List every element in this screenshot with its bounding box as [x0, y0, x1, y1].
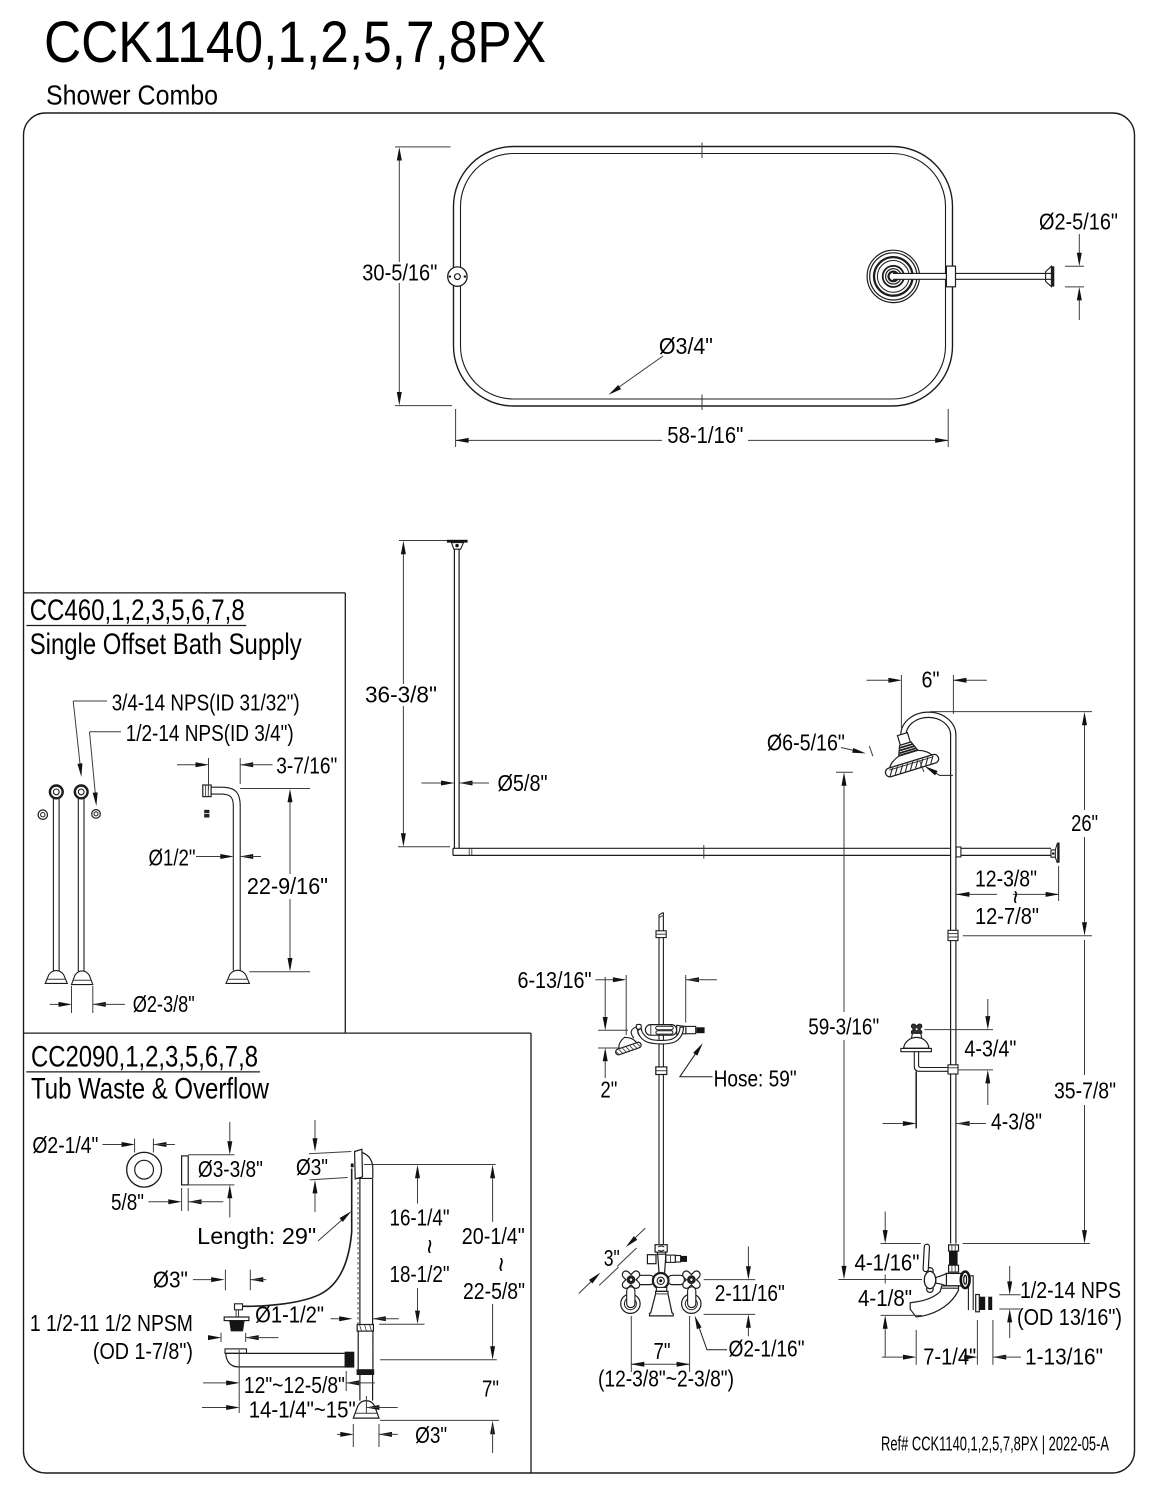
svg-text:Ø5/8": Ø5/8": [498, 770, 548, 796]
svg-text:Single Offset Bath Supply: Single Offset Bath Supply: [30, 628, 302, 661]
faucet wall plate and nipple: [976, 1295, 980, 1312]
center cradle right cone and hose nozzle: [677, 1025, 686, 1034]
svg-text:Length: 29": Length: 29": [197, 1223, 316, 1249]
svg-text:Hose: 59": Hose: 59": [714, 1065, 797, 1091]
svg-text:Ø3": Ø3": [153, 1267, 188, 1293]
CC2090 box border: [24, 1032, 532, 1034]
right coupling ring and stem: [682, 1294, 701, 1313]
dimension 12 to 12-5/8 inch: [238, 1350, 240, 1413]
svg-text:1/2-14 NPS(ID 3/4"): 1/2-14 NPS(ID 3/4"): [126, 720, 294, 746]
shower head top view concentric circles: [867, 250, 919, 302]
svg-text:Ø3": Ø3": [296, 1154, 328, 1180]
svg-text:20-1/4": 20-1/4": [462, 1223, 525, 1249]
svg-text:(12-3/8"~2-3/8"): (12-3/8"~2-3/8"): [598, 1365, 734, 1391]
tee lower nut: [357, 1369, 375, 1375]
center faucet left cross handle: [616, 1264, 647, 1295]
svg-text:35-7/8": 35-7/8": [1054, 1078, 1116, 1104]
svg-text:1/2-14 NPS: 1/2-14 NPS: [1020, 1277, 1121, 1303]
svg-text:Ø1-1/2": Ø1-1/2": [255, 1302, 324, 1328]
dimension diameter 2-3/8 inch (base): [71, 986, 73, 1013]
svg-text:(OD 1-7/8"): (OD 1-7/8"): [93, 1338, 193, 1364]
svg-text:36-3/8": 36-3/8": [365, 682, 437, 708]
svg-text:Tub Waste & Overflow: Tub Waste & Overflow: [31, 1073, 269, 1106]
center cradle capsule body: [645, 1025, 676, 1036]
offset pipe end nut: [203, 785, 211, 797]
svg-text:Shower Combo: Shower Combo: [46, 80, 218, 111]
dimension 3-7/16 inch (offset): [208, 758, 210, 790]
svg-text:4-3/4": 4-3/4": [964, 1036, 1016, 1062]
faucet tub spout: [910, 1286, 958, 1317]
center faucet escutcheon circles: [653, 1273, 669, 1289]
drain strainer with hose connection: [235, 1304, 243, 1310]
curtain rail top view - inner tube wall: [461, 154, 946, 400]
curtain rail top view - outer tube wall: [454, 147, 953, 407]
right cradle arm to riser: [914, 1052, 948, 1072]
dimension 2 inch (cradle drop): [598, 1029, 628, 1031]
overflow lower tube: [357, 1331, 359, 1351]
svg-text:5/8": 5/8": [111, 1189, 144, 1215]
svg-text:12"~12-5/8": 12"~12-5/8": [244, 1372, 345, 1398]
waste tee joint on overflow tube: [357, 1351, 359, 1369]
svg-text:2-11/16": 2-11/16": [715, 1280, 785, 1306]
gooseneck arc: [901, 712, 956, 735]
center faucet diverter column: [658, 1254, 666, 1274]
svg-text:18-1/2": 18-1/2": [390, 1261, 450, 1287]
center riser pipe with cut top: [658, 915, 660, 1244]
offset pipe clip detail: [204, 810, 209, 818]
dimension 2-11/16 inch: [704, 1279, 756, 1281]
svg-text:58-1/16": 58-1/16": [667, 422, 743, 448]
svg-text:1 1/2-11 1/2 NPSM: 1 1/2-11 1/2 NPSM: [30, 1310, 193, 1336]
svg-text:Ref# CCK1140,1,2,5,7,8PX | 202: Ref# CCK1140,1,2,5,7,8PX | 2022-05-A: [881, 1434, 1109, 1456]
svg-text:16-1/4": 16-1/4": [390, 1205, 450, 1231]
label 1/2-14 NPS (OD 13/16) with dimension: [1009, 1266, 1011, 1291]
svg-text:3-7/16": 3-7/16": [276, 752, 337, 778]
svg-text:CC460,1,2,3,5,6,7,8: CC460,1,2,3,5,6,7,8: [30, 594, 245, 627]
svg-text:26": 26": [1071, 810, 1098, 836]
svg-text:1-13/16": 1-13/16": [1025, 1344, 1103, 1370]
ceiling flange plate: [447, 540, 468, 543]
svg-text:12-3/8": 12-3/8": [975, 866, 1037, 892]
wall faucet L-arm to wall: [963, 1276, 974, 1310]
center faucet tub spout cone: [656, 1287, 666, 1291]
center cradle hook knob: [636, 1024, 641, 1029]
dimension 36-3/8 inch (ceiling rod length): [399, 540, 447, 542]
svg-text:6-13/16": 6-13/16": [518, 967, 592, 993]
rail joint tick bottom: [701, 395, 703, 411]
dimension 7-1/4 inch: [882, 1356, 912, 1358]
center faucet right cross handle: [676, 1264, 707, 1295]
dimension 7 inch (handle spacing): [630, 1316, 632, 1372]
center riser collar band: [656, 931, 666, 938]
rail wall flange side view: [1051, 850, 1055, 857]
flexible hose from drain to overflow elbow: [238, 1169, 352, 1307]
center faucet top fitting nut: [655, 1245, 667, 1252]
rail stub to wall flange: [961, 847, 1051, 849]
svg-text:14-1/4"~15": 14-1/4"~15": [249, 1396, 356, 1422]
center faucet diverter lever (left block): [647, 1255, 656, 1264]
svg-text:4-3/8": 4-3/8": [991, 1109, 1042, 1135]
drain slip nut and trap elbow with horizontal pipe: [225, 1349, 247, 1353]
rail ceiling-support fitting circle left: [448, 267, 467, 286]
svg-text:Ø3-3/8": Ø3-3/8": [198, 1156, 263, 1182]
overflow gasket ring front view: [127, 1152, 162, 1187]
svg-text:Ø3/4": Ø3/4": [659, 333, 713, 359]
dimension 59-3/16 inch (head to faucet): [836, 771, 853, 773]
dimension 4-3/8 inch (hose to riser): [883, 1123, 912, 1125]
dimension 4-1/16 inch: [881, 1243, 921, 1245]
svg-text:59-3/16": 59-3/16": [808, 1013, 879, 1039]
faucet cone between pivot and body: [936, 1274, 947, 1286]
dimension 14-1/4 to 15 inch: [202, 1407, 235, 1409]
handshower head in center cradle: [631, 1027, 637, 1039]
dimension 6 inch (head offset): [900, 675, 902, 728]
svg-text:Ø6-5/16": Ø6-5/16": [767, 729, 845, 755]
ceiling support rod: [453, 549, 455, 848]
hidden inner tube dashed line: [357, 1182, 359, 1324]
dimension 35-7/8 inch: [1084, 940, 1086, 1075]
arm coupling on riser: [948, 1065, 958, 1074]
svg-text:7": 7": [482, 1375, 499, 1401]
rail mid joint tick: [703, 845, 705, 859]
svg-text:~: ~: [415, 1239, 445, 1254]
escutcheon ring right: [92, 810, 101, 819]
offset pipe base flare: [226, 970, 249, 983]
dimension diameter 3 inch (floor flange): [352, 1424, 354, 1447]
floor flange flare: [353, 1401, 379, 1419]
ceiling flange neck: [451, 543, 463, 550]
svg-text:2": 2": [600, 1077, 617, 1103]
overflow elbow with face plate: [355, 1149, 363, 1179]
rail end joint ticks: [468, 848, 470, 855]
label Hose: 59 inch with leader to nozzle: [680, 1046, 713, 1077]
svg-text:~: ~: [487, 1257, 517, 1272]
CC460 box border: [24, 592, 346, 594]
svg-text:4-1/8": 4-1/8": [858, 1285, 912, 1311]
svg-text:Ø1/2": Ø1/2": [149, 844, 196, 870]
rail joint tick top: [701, 143, 703, 159]
center cradle U hanger bracket: [637, 1027, 683, 1044]
hatched nut at pipe-tee connection: [345, 1352, 355, 1368]
svg-text:CC2090,1,2,3,5,6,7,8: CC2090,1,2,3,5,6,7,8: [31, 1041, 258, 1074]
faucet lever handle and pivot knob: [927, 1268, 934, 1275]
escutcheon ring left: [38, 810, 47, 819]
riser union below rail: [948, 930, 958, 940]
riser bottom union nut stack: [949, 1245, 959, 1251]
svg-text:30-5/16": 30-5/16": [362, 260, 437, 286]
curtain rail side view tube: [453, 847, 950, 849]
gasket side view bar: [182, 1156, 189, 1185]
shower head (tilted, side view): [876, 726, 940, 778]
left coupling ring and stem: [621, 1294, 640, 1313]
svg-text:3": 3": [604, 1245, 620, 1271]
rail hidden behind riser - white gap: [951, 847, 955, 857]
center faucet hose nozzle (right) with dark tip: [666, 1255, 676, 1262]
tube to floor flange: [359, 1375, 361, 1401]
handshower hose hanging from right cradle: [915, 1071, 917, 1128]
dimension 20-1/4 to 22-5/8 inch: [492, 1169, 494, 1223]
center faucet body arms: [637, 1275, 655, 1284]
dimension 30-5/16 inch (rail width, top view): [395, 146, 451, 148]
dimension diameter 5/8 inch (rod): [422, 782, 450, 784]
rail collar at riser crossing: [956, 847, 961, 857]
svg-text:22-5/8": 22-5/8": [463, 1278, 525, 1304]
dimension diameter 3-3/8 inch (gasket OD): [188, 1154, 234, 1156]
svg-text:Ø2-5/16": Ø2-5/16": [1039, 209, 1118, 235]
svg-text:Ø2-3/8": Ø2-3/8": [133, 991, 195, 1017]
right handshower cradle cross knob: [907, 1020, 925, 1038]
center riser union below cradle: [656, 1067, 667, 1075]
dimension 4-3/4 inch (cradle to arm): [925, 1029, 994, 1031]
shower riser pipe: [950, 734, 952, 1244]
dimension 22-9/16 inch (pipe height): [240, 788, 310, 790]
svg-text:7": 7": [654, 1338, 671, 1364]
dimension 1-13/16 inch: [992, 1320, 994, 1365]
label diameter 2-1/16 with leader: [696, 1319, 727, 1350]
svg-text:22-9/16": 22-9/16": [247, 873, 328, 899]
rod wall cone flange top view: [1046, 266, 1052, 286]
offset bath supply pipe with bend: [232, 806, 234, 971]
svg-text:Ø2-1/4": Ø2-1/4": [32, 1132, 98, 1158]
faucet right end disc: [961, 1272, 970, 1289]
wall support rod top view: [893, 273, 1052, 279]
svg-text:6": 6": [922, 667, 940, 693]
dimension 16-1/4 to 18-1/2 inch: [364, 1164, 496, 1166]
rod coupling at rail crossing: [946, 266, 955, 287]
svg-text:(OD 13/16"): (OD 13/16"): [1017, 1304, 1122, 1330]
supply pipe 2 (1/2 NPS): [77, 798, 79, 972]
dimension 3 inch diagonal (diverter): [617, 1248, 636, 1266]
supply pipe 1 (3/4 NPS): [52, 798, 54, 972]
right cradle neck and bell holder: [912, 1033, 922, 1038]
dimension 58-1/16 inch (rail length): [455, 409, 457, 447]
overflow pipe (outer tube): [359, 1179, 361, 1325]
svg-text:CCK1140,1,2,5,7,8PX: CCK1140,1,2,5,7,8PX: [44, 10, 546, 75]
svg-text:12-7/8": 12-7/8": [975, 903, 1039, 929]
wall faucet valve body: [946, 1273, 963, 1286]
overflow coupling nut: [357, 1325, 373, 1332]
svg-text:Ø3": Ø3": [415, 1422, 447, 1448]
svg-text:4-1/16": 4-1/16": [855, 1250, 920, 1276]
dimension 26 inch (gooseneck to union): [930, 711, 1092, 713]
svg-text:Ø2-1/16": Ø2-1/16": [729, 1336, 805, 1362]
dimension 12-3/8 to 12-7/8 inch (riser to wall): [1058, 866, 1060, 901]
svg-text:3/4-14 NPS(ID 31/32"): 3/4-14 NPS(ID 31/32"): [112, 689, 300, 715]
